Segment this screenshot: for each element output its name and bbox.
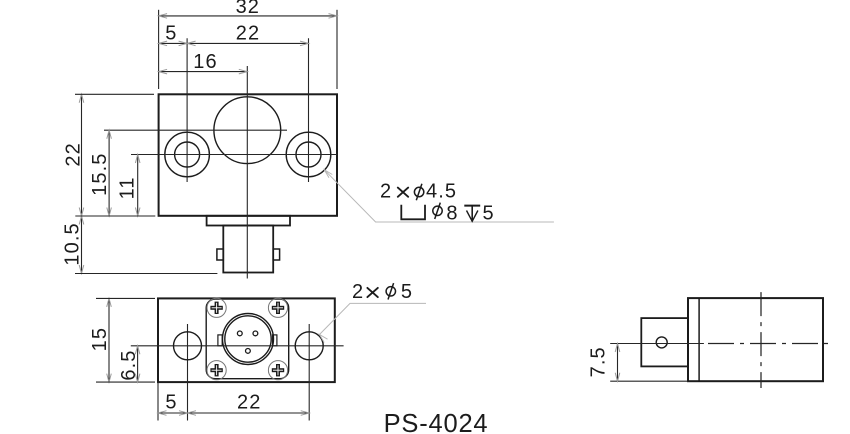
bottom view pin 3 xyxy=(246,349,251,354)
dimension 7.5 top arrow xyxy=(615,344,620,353)
callout phi symbol 5 xyxy=(386,283,395,299)
front view body xyxy=(159,94,337,216)
svg-text:6.5: 6.5 xyxy=(118,349,140,380)
bottom view left hole circle xyxy=(174,332,202,360)
front view holes centerline horizontal xyxy=(131,154,337,156)
dimension 15.5 line xyxy=(108,130,110,216)
bottom view left hole centerline vertical xyxy=(187,324,189,421)
counterbore symbol xyxy=(401,205,425,220)
front view bottom edge extension xyxy=(75,215,155,217)
svg-text:8: 8 xyxy=(446,202,458,224)
side view bottom edge extension xyxy=(610,380,688,382)
dimension 32 right arrow xyxy=(329,14,338,19)
bottom view right hole circle xyxy=(295,332,323,360)
side view vertical centerline xyxy=(760,292,762,388)
dimension 6.5 top arrow xyxy=(135,346,140,355)
dimension 16 left arrow xyxy=(159,69,168,74)
bottom view connector outer circle xyxy=(223,314,274,365)
dimension 5 bottom right arrow xyxy=(179,411,188,416)
svg-text:PS-4024: PS-4024 xyxy=(384,410,489,434)
side view horizontal centerline dashed part xyxy=(708,343,831,345)
bottom view bottom edge extension xyxy=(96,381,155,383)
front view left hole circle xyxy=(175,142,200,167)
front view barrel right lug xyxy=(273,249,279,260)
svg-text:22: 22 xyxy=(62,142,84,166)
dimension 22 left bottom arrow xyxy=(79,208,84,217)
dimension 10.5 line xyxy=(81,216,83,274)
front view right hole circle xyxy=(296,142,321,167)
dimension 11 top arrow xyxy=(135,155,140,164)
front view right counterbore circle xyxy=(286,132,331,177)
dimension 5 left arrow xyxy=(159,41,168,46)
depth symbol xyxy=(464,206,480,222)
bottom view horizontal centerline xyxy=(131,345,344,347)
side view body xyxy=(688,298,823,381)
bottom view screw bottom-right circle xyxy=(268,361,287,380)
bottom view screw bottom-left circle xyxy=(207,361,226,380)
front view left hole centerline vertical xyxy=(186,38,188,182)
bottom view screw top-right cross xyxy=(272,302,284,314)
bottom view connector plate xyxy=(206,299,289,379)
bottom view right key lug xyxy=(273,335,277,346)
svg-text:5: 5 xyxy=(401,281,413,303)
front view connector flange xyxy=(207,216,290,226)
side view horizontal centerline solid part xyxy=(610,343,704,345)
svg-text:15: 15 xyxy=(89,327,111,351)
dimension 11 line xyxy=(137,155,139,217)
svg-text:2: 2 xyxy=(380,181,392,203)
callout 2x phi 4.5 times sign xyxy=(398,188,408,197)
svg-text:15.5: 15.5 xyxy=(89,153,111,196)
side view connector xyxy=(641,318,688,366)
front view top edge extension xyxy=(75,93,154,95)
dimension 5 bottom left arrow xyxy=(158,411,167,416)
bottom view pin 1 xyxy=(237,331,242,336)
bottom view pin 2 xyxy=(253,331,258,336)
svg-text:16: 16 xyxy=(193,51,217,73)
front view large bore centerline horizontal xyxy=(104,129,287,131)
dimension 6.5 bottom arrow xyxy=(135,374,140,383)
side view connector hole circle xyxy=(656,337,667,348)
svg-text:32: 32 xyxy=(236,0,260,18)
front view right hole centerline vertical xyxy=(308,38,310,182)
dimension 5-22 line xyxy=(159,42,309,44)
counterbore leader arrow xyxy=(324,170,332,178)
bottom view left edge extension vertical xyxy=(157,382,159,420)
bottom view right hole centerline vertical xyxy=(308,324,310,421)
front view left counterbore circle xyxy=(165,132,210,177)
dimension 22 left top arrow xyxy=(79,94,84,103)
svg-text:7.5: 7.5 xyxy=(587,346,609,377)
svg-text:5: 5 xyxy=(483,202,495,224)
front view barrel left lug xyxy=(217,249,223,260)
callout 2x phi5 times sign xyxy=(367,288,377,297)
svg-text:11: 11 xyxy=(117,176,139,199)
phi5 leader line xyxy=(320,303,427,334)
dimension 32 left extension xyxy=(158,10,160,89)
dimension 15 top arrow xyxy=(107,298,112,307)
dimension 11 bottom arrow xyxy=(135,208,140,217)
counterbore leader line xyxy=(324,170,554,222)
dimension 5-22 bottom line xyxy=(158,412,309,414)
bottom view screw top-left cross xyxy=(210,302,222,314)
dimension 22 right arrow xyxy=(300,41,309,46)
dimension 10.5 bottom arrow xyxy=(79,265,84,274)
svg-text:22: 22 xyxy=(237,392,261,414)
bottom view screw top-right circle xyxy=(268,298,287,317)
dimension 32 line xyxy=(159,15,337,17)
dimension 7.5 bottom arrow xyxy=(615,373,620,382)
dimension 15 bottom arrow xyxy=(107,374,112,383)
bottom view top edge extension xyxy=(96,297,155,299)
bottom view left key lug xyxy=(218,335,222,346)
bottom view connector inner circle xyxy=(225,316,271,362)
dimension 5 right arrow xyxy=(179,41,188,46)
dimension 22 left vertical line xyxy=(81,94,83,216)
dimension 16 right arrow xyxy=(239,69,248,74)
dimension 32 right extension xyxy=(336,10,338,89)
front view connector barrel xyxy=(223,226,273,273)
dimension 32 left arrow xyxy=(159,14,168,19)
callout phi symbol 4.5 xyxy=(414,184,423,200)
bottom view screw bottom-left cross xyxy=(210,364,222,376)
dimension 22 bottom right arrow xyxy=(301,411,310,416)
side view front face line xyxy=(698,298,700,381)
phi5 leader arrow xyxy=(320,335,328,343)
callout phi symbol 8 xyxy=(433,203,442,219)
dimension 22 bottom left arrow xyxy=(188,411,197,416)
dimension 6.5 line xyxy=(137,346,139,382)
dimension 22 left arrow xyxy=(187,41,196,46)
dimension 7.5 line xyxy=(617,344,619,382)
svg-text:2: 2 xyxy=(352,281,364,303)
bottom view screw top-left circle xyxy=(207,298,226,317)
dimension 10.5 top arrow xyxy=(79,216,84,225)
dimension 15.5 bottom arrow xyxy=(107,208,112,217)
dimension 16 line xyxy=(159,71,248,73)
front view large bore circle xyxy=(214,97,281,164)
svg-text:22: 22 xyxy=(236,23,260,45)
dimension 15 line xyxy=(108,298,110,382)
dimension 15.5 top arrow xyxy=(107,130,112,139)
svg-text:5: 5 xyxy=(165,392,177,414)
bottom view screw bottom-right cross xyxy=(272,364,284,376)
front view connector bottom extension xyxy=(75,273,217,275)
bottom view body xyxy=(158,298,335,382)
svg-text:10.5: 10.5 xyxy=(62,222,84,265)
svg-text:4.5: 4.5 xyxy=(426,181,457,203)
front view middle centerline vertical xyxy=(246,66,248,279)
svg-text:5: 5 xyxy=(165,23,177,45)
